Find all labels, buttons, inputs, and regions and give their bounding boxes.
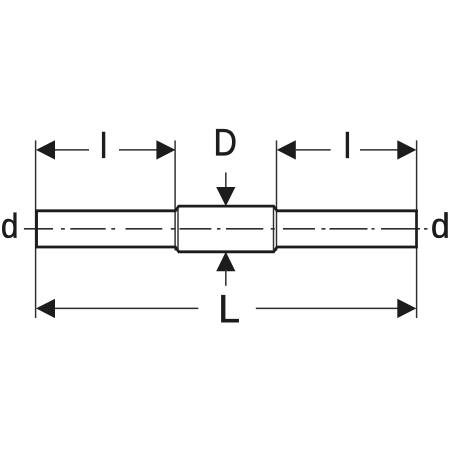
arrow D top pointing down xyxy=(216,187,235,206)
label l (left) xyxy=(102,132,105,158)
label L xyxy=(221,295,238,322)
pipe left end cap xyxy=(35,210,38,249)
label d (right) xyxy=(432,212,447,238)
arrow l-right pointing left xyxy=(277,140,296,159)
extension line right (x=416.3) xyxy=(416,140,418,318)
label D xyxy=(216,129,235,155)
label l (right) xyxy=(346,132,349,158)
arrow l-left pointing right xyxy=(156,140,175,159)
extension line left (x=35.7) xyxy=(35,140,37,318)
sleeve left face line xyxy=(177,208,179,251)
arrow l-left pointing left xyxy=(36,140,55,159)
D leader line top xyxy=(225,173,227,191)
arrow L pointing left xyxy=(36,299,55,318)
pipe lower profile with sleeve taper xyxy=(35,247,418,252)
arrow D bottom pointing up xyxy=(216,252,235,272)
pipe right end cap xyxy=(415,210,418,249)
dimension line L xyxy=(54,307,198,309)
arrow l-right pointing right xyxy=(397,140,416,159)
dimension line l right xyxy=(296,149,331,151)
arrow L pointing right xyxy=(397,299,416,318)
D leader line bottom xyxy=(225,269,227,285)
sleeve right face line xyxy=(273,208,275,251)
dimension line l left xyxy=(54,149,89,151)
centerline dash-dot xyxy=(24,228,428,230)
pipe upper profile with sleeve taper xyxy=(35,206,418,211)
label d (left) xyxy=(2,213,16,238)
extension line at left pipe end / sleeve (x=175.7) xyxy=(174,140,176,250)
extension line at right pipe end / sleeve (x=277.1) xyxy=(276,140,278,250)
